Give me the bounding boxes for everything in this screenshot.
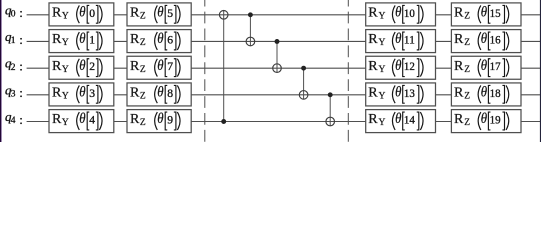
svg-text:R: R (52, 59, 62, 74)
svg-text:R: R (130, 85, 140, 100)
svg-text:Z: Z (464, 91, 470, 101)
svg-text:θ: θ (481, 58, 487, 74)
svg-text:Y: Y (379, 65, 386, 75)
svg-text:θ: θ (395, 31, 401, 47)
svg-text:θ: θ (481, 84, 487, 100)
svg-text:2: 2 (89, 59, 95, 73)
svg-text:Y: Y (379, 91, 386, 101)
svg-text:Y: Y (379, 38, 386, 48)
svg-text:14: 14 (404, 113, 415, 127)
svg-text:Y: Y (62, 11, 69, 21)
svg-text:7: 7 (167, 59, 173, 73)
svg-text:Y: Y (62, 118, 69, 128)
svg-text:R: R (52, 112, 62, 127)
svg-text:0: 0 (11, 10, 16, 20)
svg-text:R: R (368, 85, 378, 100)
svg-text:Z: Z (464, 11, 470, 21)
svg-text:Y: Y (379, 11, 386, 21)
svg-text:19: 19 (490, 113, 501, 127)
svg-text:R: R (130, 5, 140, 20)
svg-text:R: R (368, 5, 378, 20)
svg-text::: : (19, 85, 23, 100)
svg-text:θ: θ (395, 111, 401, 127)
svg-text:θ: θ (481, 31, 487, 47)
svg-text:13: 13 (404, 86, 415, 100)
svg-text:θ: θ (481, 4, 487, 20)
svg-text:θ: θ (395, 84, 401, 100)
svg-text:Z: Z (464, 118, 470, 128)
svg-text:16: 16 (490, 32, 501, 46)
svg-text:R: R (454, 5, 464, 20)
svg-text::: : (19, 5, 23, 20)
svg-text::: : (19, 32, 23, 47)
svg-text:Z: Z (140, 91, 146, 101)
svg-text:9: 9 (167, 113, 173, 127)
svg-text::: : (19, 112, 23, 127)
svg-text:18: 18 (490, 86, 501, 100)
svg-text:θ: θ (79, 31, 85, 47)
svg-text:R: R (368, 32, 378, 47)
svg-text:10: 10 (404, 6, 415, 20)
svg-text:4: 4 (89, 113, 95, 127)
svg-text:Y: Y (62, 38, 69, 48)
svg-text:θ: θ (157, 31, 163, 47)
svg-text:Y: Y (62, 91, 69, 101)
svg-text:θ: θ (481, 111, 487, 127)
svg-text:θ: θ (395, 58, 401, 74)
svg-text:R: R (454, 112, 464, 127)
svg-text:R: R (52, 5, 62, 20)
svg-text:4: 4 (11, 116, 16, 126)
svg-text:θ: θ (157, 4, 163, 20)
svg-text:R: R (52, 85, 62, 100)
svg-text:1: 1 (11, 36, 16, 46)
svg-text:Z: Z (140, 65, 146, 75)
svg-text:Z: Z (464, 38, 470, 48)
svg-text:Z: Z (140, 118, 146, 128)
svg-text:R: R (454, 32, 464, 47)
svg-text:θ: θ (157, 58, 163, 74)
svg-text:1: 1 (89, 32, 95, 46)
svg-text:Y: Y (379, 118, 386, 128)
svg-text:R: R (454, 85, 464, 100)
svg-text:R: R (454, 59, 464, 74)
svg-text:R: R (368, 112, 378, 127)
svg-text:15: 15 (490, 6, 501, 20)
svg-text:0: 0 (89, 6, 95, 20)
svg-text:θ: θ (79, 58, 85, 74)
svg-text:3: 3 (89, 86, 95, 100)
svg-text:R: R (52, 32, 62, 47)
svg-text:θ: θ (79, 84, 85, 100)
svg-text:3: 3 (11, 90, 16, 100)
svg-text:R: R (130, 59, 140, 74)
svg-text:5: 5 (167, 6, 173, 20)
svg-text:R: R (130, 112, 140, 127)
svg-text:6: 6 (167, 32, 173, 46)
svg-text:Z: Z (140, 11, 146, 21)
svg-text:12: 12 (404, 59, 415, 73)
svg-text:R: R (368, 59, 378, 74)
svg-text:11: 11 (404, 32, 415, 46)
svg-text:θ: θ (79, 111, 85, 127)
svg-text:θ: θ (79, 4, 85, 20)
svg-text:2: 2 (11, 63, 16, 73)
svg-text:θ: θ (157, 84, 163, 100)
svg-text:Z: Z (464, 65, 470, 75)
svg-text:Z: Z (140, 38, 146, 48)
svg-text:17: 17 (490, 59, 501, 73)
svg-text:θ: θ (395, 4, 401, 20)
svg-text:θ: θ (157, 111, 163, 127)
svg-text:R: R (130, 32, 140, 47)
svg-text::: : (19, 58, 23, 73)
svg-text:8: 8 (167, 86, 173, 100)
svg-text:Y: Y (62, 65, 69, 75)
